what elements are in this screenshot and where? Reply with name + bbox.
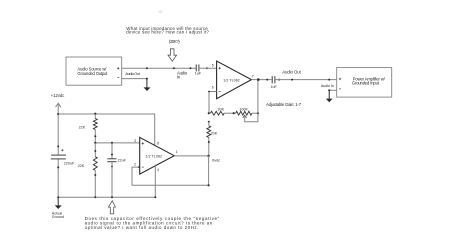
- capacitor C2 1uF output: [271, 76, 273, 83]
- wire: U1 output: [251, 79, 271, 81]
- svg-text:Audio Out: Audio Out: [125, 71, 140, 76]
- svg-text:5: 5: [212, 63, 214, 67]
- svg-text:1/2 TL082: 1/2 TL082: [223, 78, 240, 82]
- resistor R 20K to vref: [208, 121, 210, 123]
- wire: source - to ground: [122, 78, 147, 80]
- resistor R 22K upper divider: [94, 114, 96, 119]
- svg-text:220uF: 220uF: [64, 161, 75, 165]
- svg-text:22K: 22K: [79, 126, 86, 130]
- svg-text:6: 6: [212, 86, 214, 90]
- annotation: input impedance question: [126, 26, 209, 44]
- svg-text:optimal value? I want full au: optimal value? I want full audio down to…: [85, 225, 199, 230]
- svg-text:1/2 TL082: 1/2 TL082: [146, 154, 163, 158]
- svg-text:Adjustable Gain: 1-7: Adjustable Gain: 1-7: [266, 102, 302, 107]
- annotation: capacitor coupling question: [85, 216, 220, 230]
- svg-text:22uF: 22uF: [118, 159, 127, 163]
- svg-text:3: 3: [134, 139, 136, 143]
- wire: C1 to U1 + input: [199, 67, 217, 69]
- svg-text:22K: 22K: [78, 164, 85, 168]
- rail: [57, 103, 59, 155]
- svg-text:1: 1: [176, 150, 178, 154]
- wire: U2 output to 6vdc node: [174, 155, 208, 157]
- wire to power amp: [275, 79, 337, 81]
- op-amp U1 1/2 TL082: [217, 61, 252, 99]
- U1 inverting input - mark: [219, 91, 221, 93]
- supply arrow up: [56, 103, 61, 107]
- capacitor C3 220uF: [57, 145, 59, 147]
- svg-text:Grounded Input: Grounded Input: [352, 81, 380, 86]
- U2 inverting input - mark: [142, 166, 144, 168]
- stray faint mark: [159, 10, 163, 13]
- svg-text:device see here? How can I adj: device see here? How can I adjust it?: [126, 30, 209, 35]
- hollow down arrow annotation pointer: [168, 49, 177, 61]
- svg-text:6vdc: 6vdc: [212, 159, 220, 163]
- node: audio in: [173, 67, 175, 69]
- box: audio source: [66, 57, 122, 85]
- hollow up arrow annotation pointer: [108, 201, 115, 214]
- svg-text:Audio In: Audio In: [321, 84, 334, 88]
- svg-text:20K: 20K: [211, 132, 218, 136]
- feedback row: [208, 112, 210, 114]
- box: power amplifier: [337, 68, 392, 98]
- capacitor C4 22uF: [111, 143, 113, 159]
- svg-text:(20K?): (20K?): [169, 39, 180, 44]
- resistor R 22K lower divider: [94, 143, 96, 157]
- wire: U2 pin2 feedback loop: [132, 167, 209, 185]
- junction: U1 output node: [257, 78, 260, 81]
- node dot: [146, 67, 148, 69]
- svg-text:Grounded Output: Grounded Output: [77, 71, 108, 76]
- potentiometer 100K: [236, 111, 252, 115]
- node: divider midpoint to U2 pin3: [95, 142, 139, 144]
- U2 non-inverting input + mark: [142, 142, 145, 145]
- ground arrow left: [146, 79, 148, 88]
- op-amp U2 1/2 TL082: [140, 137, 175, 174]
- svg-text:2: 2: [134, 163, 136, 167]
- U1 non-inverting input + mark: [218, 67, 221, 70]
- wire: U1 inverting input down to feedback: [209, 92, 217, 113]
- C1 plates: [195, 64, 197, 71]
- svg-text:7: 7: [252, 74, 254, 78]
- svg-text:4: 4: [157, 168, 159, 172]
- ground rail: [58, 196, 155, 198]
- wire: feedback up to output: [257, 80, 259, 114]
- svg-text:+12vdc: +12vdc: [51, 93, 65, 98]
- svg-text:100K: 100K: [239, 107, 248, 111]
- capacitor C1 1uF input: [190, 67, 192, 69]
- svg-text:1uF: 1uF: [270, 85, 277, 89]
- wire: rail feed to divider and U2 pin8: [58, 114, 155, 147]
- svg-text:Ground: Ground: [52, 215, 64, 219]
- pot wiper arrow: [243, 115, 247, 118]
- svg-text:1uF: 1uF: [195, 72, 202, 76]
- resistor R 20K feedback: [210, 111, 224, 115]
- wire: power amp - to ground: [329, 89, 337, 91]
- wire: U2 pin4 to ground rail: [154, 165, 156, 198]
- wire: source + to input cap: [122, 67, 196, 69]
- svg-text:20K: 20K: [218, 107, 225, 111]
- svg-text:8: 8: [157, 142, 159, 146]
- ground arrow: actual ground: [57, 197, 59, 205]
- ground arrow right: [328, 90, 330, 99]
- svg-text:Audio Out: Audio Out: [282, 69, 301, 74]
